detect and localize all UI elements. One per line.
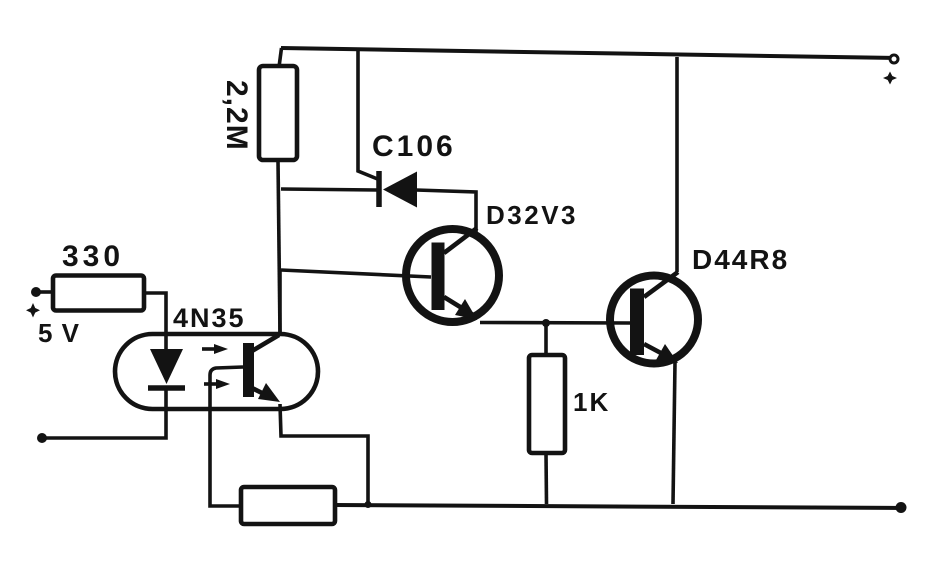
- D44R8 collector line: [644, 272, 678, 297]
- svg-text:5 V: 5 V: [38, 318, 80, 348]
- wire R 1K bottom to bottom rail: [544, 453, 548, 504]
- phototransistor collector line: [252, 335, 279, 351]
- phototransistor emitter arrowhead: [258, 383, 280, 402]
- node negative output terminal dot: [896, 502, 907, 513]
- wire D32V3 emitter to D44R8 base (node E): [480, 321, 630, 325]
- thyristor C106 cathode bar: [376, 171, 382, 207]
- wire from rail down to R 2,2M top: [279, 48, 282, 67]
- svg-text:2,2M: 2,2M: [220, 80, 253, 151]
- D32V3 collector line: [444, 228, 477, 253]
- wire C106 anode to D32V3 collector: [416, 190, 476, 233]
- thyristor C106 arrow (triangle): [383, 172, 417, 208]
- transistor D32V3 base bar: [432, 243, 445, 311]
- wire top positive rail: [281, 48, 894, 58]
- wire phototransistor emitter down to bottom rail: [280, 404, 368, 504]
- svg-text:1K: 1K: [573, 387, 610, 417]
- D44R8 emitter arrowhead: [656, 344, 678, 363]
- resistor 330: [53, 276, 144, 311]
- transistor D44R8 base bar: [630, 289, 644, 356]
- resistor 1K: [529, 355, 565, 453]
- wire D44R8 emitter to bottom rail: [673, 362, 675, 504]
- resistor base-emitter (bottom, unlabeled): [241, 487, 335, 524]
- light arrow 2: [204, 382, 220, 386]
- D32V3 emitter line: [444, 297, 478, 318]
- plus polarity mark top right: [883, 72, 897, 85]
- wire C106 gate from rail: [358, 50, 380, 180]
- node junction emitter-rail: [365, 501, 372, 508]
- wire phototransistor base (left and down): [210, 367, 243, 506]
- wire node E down to R 1K: [544, 323, 548, 356]
- light arrow 1: [202, 347, 218, 351]
- node input return terminal dot: [37, 433, 47, 443]
- D32V3 emitter arrowhead: [455, 299, 477, 320]
- svg-text:D44R8: D44R8: [692, 244, 789, 275]
- wire phototransistor collector up to node B: [278, 270, 282, 334]
- wire bottom rail: [335, 505, 902, 508]
- node positive output terminal (open circle): [890, 55, 898, 63]
- transistor D32V3 circle: [406, 229, 499, 322]
- svg-text:D32V3: D32V3: [486, 200, 578, 230]
- svg-text:330: 330: [62, 240, 124, 273]
- wire D44R8 collector to top rail: [675, 57, 679, 272]
- wire R 330 to LED anode: [143, 293, 166, 350]
- LED cathode bar: [148, 385, 185, 391]
- optocoupler 4N35 body (oval): [115, 334, 318, 409]
- svg-text:C106: C106: [372, 130, 456, 163]
- LED triangle: [150, 349, 183, 384]
- node 5V input terminal dot: [31, 287, 41, 297]
- node junction 1K top: [542, 319, 550, 327]
- wire node B to C106 cathode: [281, 189, 377, 190]
- svg-text:4N35: 4N35: [173, 303, 246, 333]
- wire terminal to R 330: [39, 290, 54, 294]
- wire node B to D32V3 base: [281, 270, 431, 277]
- phototransistor emitter line: [252, 388, 272, 398]
- D44R8 emitter line: [644, 344, 674, 360]
- wire LED cathode down and left to input return terminal: [42, 390, 166, 438]
- phototransistor base bar: [243, 343, 254, 397]
- transistor D44R8 circle: [610, 276, 698, 364]
- plus polarity mark left: [26, 303, 40, 318]
- wire from R 2,2M bottom down to node B (base node vertical): [278, 160, 280, 334]
- resistor 2,2M: [259, 66, 297, 160]
